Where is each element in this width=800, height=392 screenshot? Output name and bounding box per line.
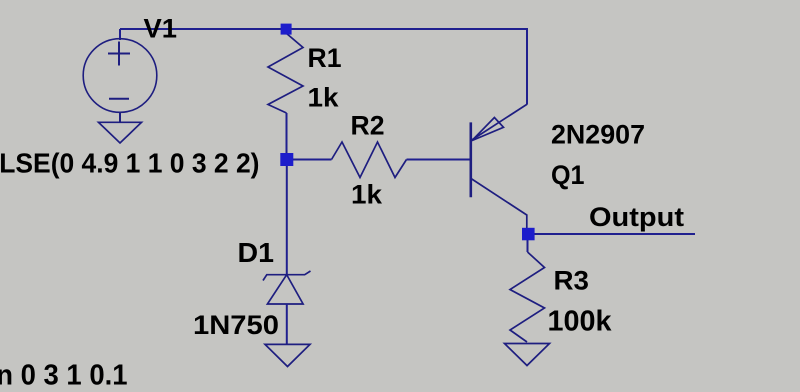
wire output <box>534 233 695 235</box>
ground under D1 <box>265 344 310 366</box>
svg-text:R2: R2 <box>351 111 385 141</box>
V1 plus sign <box>108 42 130 66</box>
svg-text:R3: R3 <box>554 266 590 296</box>
wire R2 to Q1 base <box>407 159 471 161</box>
wire node down to D1 <box>286 160 288 275</box>
Q1 emitter arrow <box>472 118 504 141</box>
svg-text:Q1: Q1 <box>551 160 585 190</box>
node junction middle (R1/R2/D1) <box>280 153 293 166</box>
node junction top (R1 top) <box>281 24 292 35</box>
svg-text:PULSE(0 4.9 1 1 0 3 2 2): PULSE(0 4.9 1 1 0 3 2 2) <box>0 148 260 179</box>
wire top rail from V1 to transistor emitter drop <box>120 29 527 104</box>
svg-text:Output: Output <box>589 202 684 232</box>
Q1 emitter diagonal <box>471 104 527 141</box>
wire node to R2 <box>287 159 332 161</box>
resistor R2 <box>332 142 407 178</box>
svg-text:100k: 100k <box>548 306 612 338</box>
svg-text:1k: 1k <box>308 83 340 113</box>
transistor Q1 base bar <box>469 122 472 197</box>
Q1 collector diagonal <box>471 179 527 231</box>
resistor R1 <box>268 31 303 113</box>
svg-text:V1: V1 <box>144 14 178 44</box>
zener diode D1 <box>263 271 311 304</box>
wire V1 bottom stub <box>119 112 121 122</box>
node junction output <box>522 228 535 241</box>
svg-text:.tran 0 3 1 0.1: .tran 0 3 1 0.1 <box>0 360 128 392</box>
svg-text:R1: R1 <box>308 43 342 73</box>
svg-text:1k: 1k <box>351 180 383 210</box>
resistor R3 <box>510 252 545 342</box>
ground under R3 <box>505 344 550 366</box>
svg-text:1N750: 1N750 <box>193 310 279 340</box>
V1 minus sign <box>109 98 129 100</box>
ground under V1 <box>99 122 142 143</box>
wire node to R3 <box>527 238 529 252</box>
wire D1 to ground <box>286 304 288 344</box>
svg-text:D1: D1 <box>238 237 275 268</box>
wire V1 top stub <box>119 29 121 40</box>
svg-text:2N2907: 2N2907 <box>551 120 645 150</box>
voltage source V1 circle <box>83 39 157 113</box>
wire R1 bottom to node <box>286 113 288 159</box>
